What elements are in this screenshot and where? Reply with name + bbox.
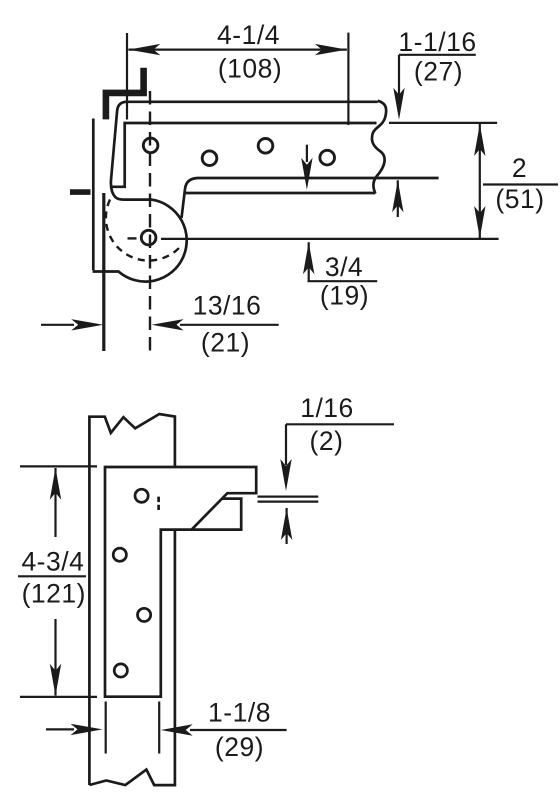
svg-text:(27): (27) xyxy=(414,57,463,87)
svg-text:1-1/16: 1-1/16 xyxy=(398,27,476,57)
svg-text:(108): (108) xyxy=(218,54,282,84)
svg-text:4-1/4: 4-1/4 xyxy=(217,20,280,50)
svg-text:4-3/4: 4-3/4 xyxy=(21,547,84,577)
svg-text:(29): (29) xyxy=(215,732,264,762)
svg-text:(21): (21) xyxy=(201,328,250,358)
svg-text:(2): (2) xyxy=(310,426,344,456)
svg-text:2: 2 xyxy=(512,153,527,183)
svg-text:(121): (121) xyxy=(22,579,86,609)
svg-text:3/4: 3/4 xyxy=(325,252,363,282)
svg-text:1/16: 1/16 xyxy=(300,393,354,423)
svg-text:1-1/8: 1-1/8 xyxy=(208,698,271,728)
svg-text:(51): (51) xyxy=(495,184,544,214)
svg-text:(19): (19) xyxy=(320,281,369,311)
svg-text:13/16: 13/16 xyxy=(193,291,262,321)
